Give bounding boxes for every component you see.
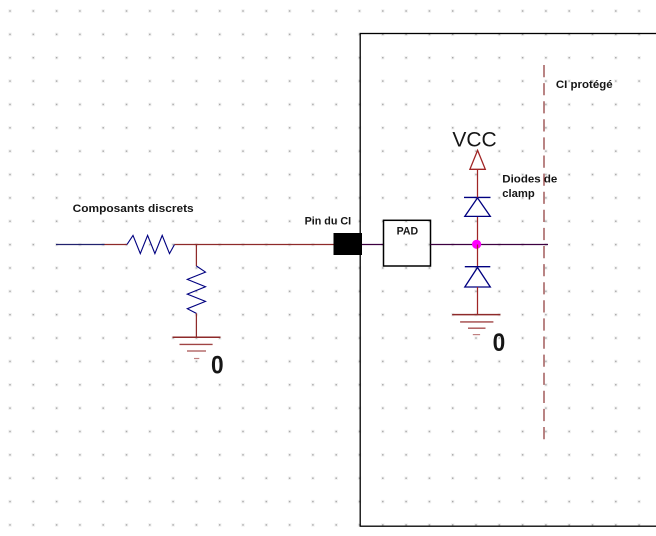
svg-text:Composants discrets: Composants discrets — [73, 203, 194, 215]
svg-text:0: 0 — [211, 352, 224, 380]
wire (red segment before R1) — [105, 244, 128, 246]
diode D2 (clamp to ground) — [465, 267, 491, 287]
junction node (magenta dot) — [472, 240, 481, 249]
wire (red, R2 to ground) — [195, 313, 197, 337]
svg-text:0: 0 — [493, 329, 506, 357]
wire (dark purple, pin to PAD) — [362, 244, 384, 246]
svg-text:VCC: VCC — [452, 128, 496, 151]
wire (red, junction up to diode D1) — [477, 216, 479, 244]
wire (red, R1 to IC pin) — [175, 244, 335, 246]
wire (red, junction down to diode D2) — [477, 245, 479, 267]
node T-junction at x=196 — [195, 245, 197, 267]
PAD box U1 — [384, 220, 431, 266]
wire (left lead, navy) — [56, 244, 105, 246]
wire (dark purple, PAD to junction and beyond) — [431, 244, 549, 246]
ground symbol (right) — [452, 315, 500, 335]
svg-text:Diodes de: Diodes de — [502, 174, 557, 186]
svg-text:CI protégé: CI protégé — [556, 79, 613, 91]
wire (red, D1 to VCC symbol) — [477, 169, 479, 197]
wire (red, D2 to ground) — [477, 287, 479, 315]
svg-text:Pin du CI: Pin du CI — [305, 216, 352, 228]
VCC power symbol (red triangle) — [470, 150, 485, 169]
ground symbol (left) — [173, 337, 221, 358]
svg-text:clamp: clamp — [502, 188, 535, 200]
IC pin (black pad on boundary) — [334, 233, 363, 255]
boundary line of protected IC (red dashed) — [543, 65, 545, 440]
resistor R2 (shunt, vertical zigzag) — [187, 266, 205, 313]
IC boundary rectangle — [360, 34, 656, 527]
svg-text:PAD: PAD — [397, 225, 419, 237]
resistor R1 (series, horizontal zigzag) — [127, 235, 175, 253]
diode D1 (clamp to VCC) — [464, 197, 491, 216]
